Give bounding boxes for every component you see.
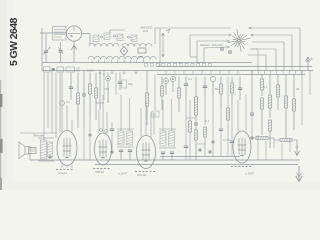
arrowhead loop A right	[249, 27, 252, 29]
label u2697 left	[118, 172, 128, 176]
label dial lamps	[200, 43, 223, 47]
wire bottom bus	[30, 159, 300, 161]
wire v x258 low	[257, 135, 259, 160]
label k1	[215, 87, 219, 91]
capacitor C13	[119, 150, 123, 160]
wire v x155	[152, 75, 159, 118]
resistor R17	[269, 75, 272, 119]
node circle j	[210, 76, 215, 95]
resistor R5	[95, 73, 98, 121]
node small a	[100, 36, 102, 38]
wire above T2 b	[171, 99, 173, 131]
resistor R14	[231, 77, 234, 106]
wire v x238 up	[237, 100, 239, 132]
resistor R8	[146, 71, 149, 126]
wire v x274 low	[273, 138, 275, 148]
wire above T1 b	[129, 98, 131, 131]
wire from circle right	[82, 34, 90, 45]
switch band lower scallops	[88, 56, 156, 59]
padder diamond	[120, 47, 128, 56]
label V4	[135, 172, 155, 178]
svg-text:470: 470	[104, 87, 109, 91]
resistor R19	[277, 75, 280, 111]
lamp E2	[228, 50, 232, 54]
label m1	[205, 119, 210, 123]
wire v x62 up	[61, 73, 63, 133]
resistor R20	[285, 75, 288, 139]
paper background	[0, 0, 320, 190]
pin stubs 3	[252, 71, 302, 75]
label r col 2	[296, 87, 300, 91]
wire loop C left	[197, 41, 227, 63]
tube V1 top circle	[66, 26, 81, 41]
wire loop B left	[190, 35, 229, 57]
wire speaker top	[20, 132, 57, 134]
wire vertical x258	[252, 49, 258, 71]
wire v x103 up	[102, 95, 104, 133]
wire v x90 low	[89, 115, 92, 160]
wire v x266 low	[265, 141, 267, 160]
IF transformer T2	[159, 129, 176, 148]
node circle f	[115, 73, 117, 96]
wire bus top	[42, 62, 252, 64]
lamp E1	[220, 47, 224, 51]
node circle h	[170, 76, 175, 92]
wire x44 to transformer	[43, 128, 45, 140]
wire cap drop	[45, 33, 47, 63]
cathode symbol	[71, 46, 77, 51]
wire v x146 up	[145, 102, 147, 136]
title 5 GW 2648	[8, 18, 20, 66]
wire vertical left 1	[43, 73, 45, 129]
capacitor C16	[170, 152, 174, 160]
wire loop D left	[204, 47, 227, 63]
antenna symbol	[306, 57, 314, 71]
wire jog a	[186, 117, 196, 119]
node t1	[111, 151, 114, 154]
node i	[194, 122, 197, 130]
svg-text:50p: 50p	[128, 82, 133, 86]
label speaker	[33, 134, 44, 138]
tube V2 output	[57, 131, 77, 166]
resistor R15	[261, 75, 264, 97]
wire bus 4	[157, 74, 305, 76]
arrowhead loop C	[227, 40, 230, 42]
capacitor C11	[203, 77, 207, 96]
svg-text:50: 50	[215, 87, 219, 91]
svg-text:5 GW 2648: 5 GW 2648	[8, 18, 20, 66]
node spk	[49, 156, 52, 159]
resistor R23 h	[274, 139, 297, 142]
wire above T1 a	[120, 95, 122, 131]
node small b	[113, 35, 115, 37]
label osc freq	[140, 26, 153, 34]
capacitor C18	[230, 131, 234, 157]
wire v x84 low	[83, 128, 85, 160]
wire vertical left 2	[47, 73, 49, 129]
svg-text:40: 40	[296, 87, 300, 91]
wire v x141 up	[140, 108, 142, 137]
label k2	[234, 92, 236, 96]
capacitor C15	[161, 152, 165, 160]
wire bus 2	[157, 66, 312, 68]
svg-text:220V: 220V	[87, 69, 94, 73]
wire above T2 a	[162, 100, 164, 131]
arrowhead loop B	[229, 34, 232, 36]
svg-text:0,1: 0,1	[66, 100, 71, 104]
wire loop stub2	[197, 62, 204, 64]
wire loop E right	[248, 55, 266, 71]
arrowhead loop B right	[251, 34, 254, 36]
capacitor C17	[219, 108, 223, 157]
wire loop C right	[252, 42, 284, 71]
resistor R1 box	[138, 48, 146, 59]
capacitor C7	[118, 73, 134, 91]
wire jog b	[196, 143, 205, 145]
wire bus 3	[42, 70, 313, 72]
resistor R11 tall	[194, 77, 197, 123]
svg-text:u 2697: u 2697	[245, 172, 255, 176]
wire v x205 low	[204, 95, 207, 157]
wire left branch	[41, 28, 43, 71]
wire v x232 low	[231, 105, 233, 131]
wire v x310	[309, 71, 311, 96]
wire spk bottom	[29, 154, 31, 160]
resistor R12	[195, 130, 198, 160]
wire v x104	[103, 71, 105, 101]
svg-text:600: 600	[138, 55, 143, 59]
svg-text:0,1: 0,1	[153, 113, 157, 117]
label r col 1	[264, 85, 269, 89]
IF transformer T1	[117, 129, 134, 147]
svg-text:UCH11: UCH11	[137, 173, 147, 177]
wire v x213 low	[212, 95, 215, 157]
wire x56 link	[55, 122, 57, 138]
resistor R3	[77, 73, 80, 129]
wire v x107 up	[106, 112, 108, 134]
svg-text:UY11: UY11	[223, 138, 230, 142]
node r1	[251, 114, 254, 139]
label V2	[56, 170, 73, 176]
capacitor C1 variable	[43, 48, 50, 56]
capacitor C5	[69, 73, 73, 101]
switch band upper scallops	[89, 44, 152, 47]
pin stubs	[145, 63, 212, 66]
label 470	[104, 87, 109, 91]
label 01	[188, 77, 193, 81]
resistor R4	[89, 73, 92, 116]
tube V5 right	[233, 131, 251, 163]
label C5	[66, 100, 71, 104]
svg-text:UCL11: UCL11	[58, 171, 67, 175]
wire loop A left	[155, 28, 231, 44]
wire loop stub	[190, 56, 197, 58]
node m1	[199, 149, 202, 152]
wire v x290 low	[289, 138, 291, 152]
node junction	[52, 68, 54, 70]
output transformer Tr1	[41, 140, 53, 159]
resistor R6	[96, 73, 104, 111]
label V3	[93, 169, 110, 175]
wire v x155 low	[153, 112, 155, 135]
label V5 side	[223, 138, 230, 142]
wire v x246 up	[245, 95, 247, 132]
wire vertical left 5	[59, 73, 61, 134]
wire v x72 up	[71, 120, 73, 132]
coil L1 hatched	[93, 35, 99, 42]
wire v x282 low	[281, 143, 283, 160]
coil L2 hatched	[104, 33, 110, 40]
wire bottom short	[160, 156, 240, 158]
resistor R24	[189, 100, 192, 160]
dimension arrow	[162, 29, 170, 57]
node circle e	[106, 73, 111, 104]
wire v x186 low	[184, 100, 188, 160]
resistor R18	[269, 120, 272, 148]
pin stubs 2	[166, 71, 238, 75]
svg-text:0,1: 0,1	[264, 85, 269, 89]
capacitor C10	[184, 77, 188, 101]
svg-text:0,1: 0,1	[188, 77, 193, 81]
svg-text:Skalenl. 3x0,6/1V: Skalenl. 3x0,6/1V	[200, 43, 223, 47]
wire antenna input	[40, 32, 66, 34]
resistor R21	[293, 75, 296, 131]
resistor R22 h	[252, 137, 274, 140]
wire v x67 up	[60, 101, 67, 132]
switch contact ticks	[92, 60, 143, 63]
wire v x112	[111, 140, 113, 150]
tube V2 pins	[62, 165, 72, 169]
wire v x151 up	[150, 112, 152, 137]
wire vertical x160	[159, 28, 161, 67]
wire bottom bus 2	[95, 164, 298, 166]
wire transformer frame	[38, 138, 54, 161]
mains terminal row	[44, 67, 95, 73]
node small c	[127, 36, 129, 38]
junction dots row	[99, 72, 137, 74]
label box antenna coil	[53, 27, 67, 41]
capacitor C12	[238, 77, 242, 101]
arrowhead loop D	[227, 46, 230, 48]
wire v x252	[250, 71, 253, 116]
wire loop B right	[251, 35, 292, 71]
svg-text:u 2697: u 2697	[118, 172, 128, 176]
resistor R16	[261, 98, 264, 135]
coil L3 hatched	[117, 34, 123, 41]
speaker LS	[19, 142, 36, 159]
capacitor C14	[128, 150, 132, 160]
scan edge artifact	[0, 80, 3, 190]
wire vertical left 3	[51, 71, 53, 134]
label V5	[231, 167, 255, 176]
dial lamp starburst	[228, 29, 251, 52]
ground arrow 2	[296, 166, 302, 182]
wire band top link	[110, 30, 125, 33]
resistor R9	[161, 77, 164, 111]
node m2	[209, 151, 212, 154]
wire circle down	[73, 41, 75, 62]
wire loop D right	[250, 49, 276, 71]
resistor R13	[220, 77, 223, 109]
svg-text:UBF11: UBF11	[95, 170, 104, 174]
resistor R10	[178, 77, 181, 113]
svg-text:Wandler: Wandler	[33, 134, 44, 138]
svg-text:0,1: 0,1	[205, 119, 210, 123]
wire v x302	[301, 71, 303, 126]
coil L4 hatched	[131, 35, 137, 42]
node circle g	[163, 77, 168, 96]
wire loop A right	[249, 28, 300, 71]
svg-text:kHz: kHz	[143, 29, 149, 33]
trimmer arrow	[58, 47, 63, 54]
node d	[82, 71, 85, 129]
wire v x99 up	[98, 110, 100, 134]
ground arrow 1	[295, 140, 300, 156]
wire vertical left 4	[55, 73, 57, 123]
capacitor cluster row	[100, 122, 115, 140]
tube V4 center	[137, 136, 156, 169]
tube V3	[95, 133, 112, 165]
resistor R25	[227, 77, 230, 157]
wire trimmer	[60, 42, 62, 63]
